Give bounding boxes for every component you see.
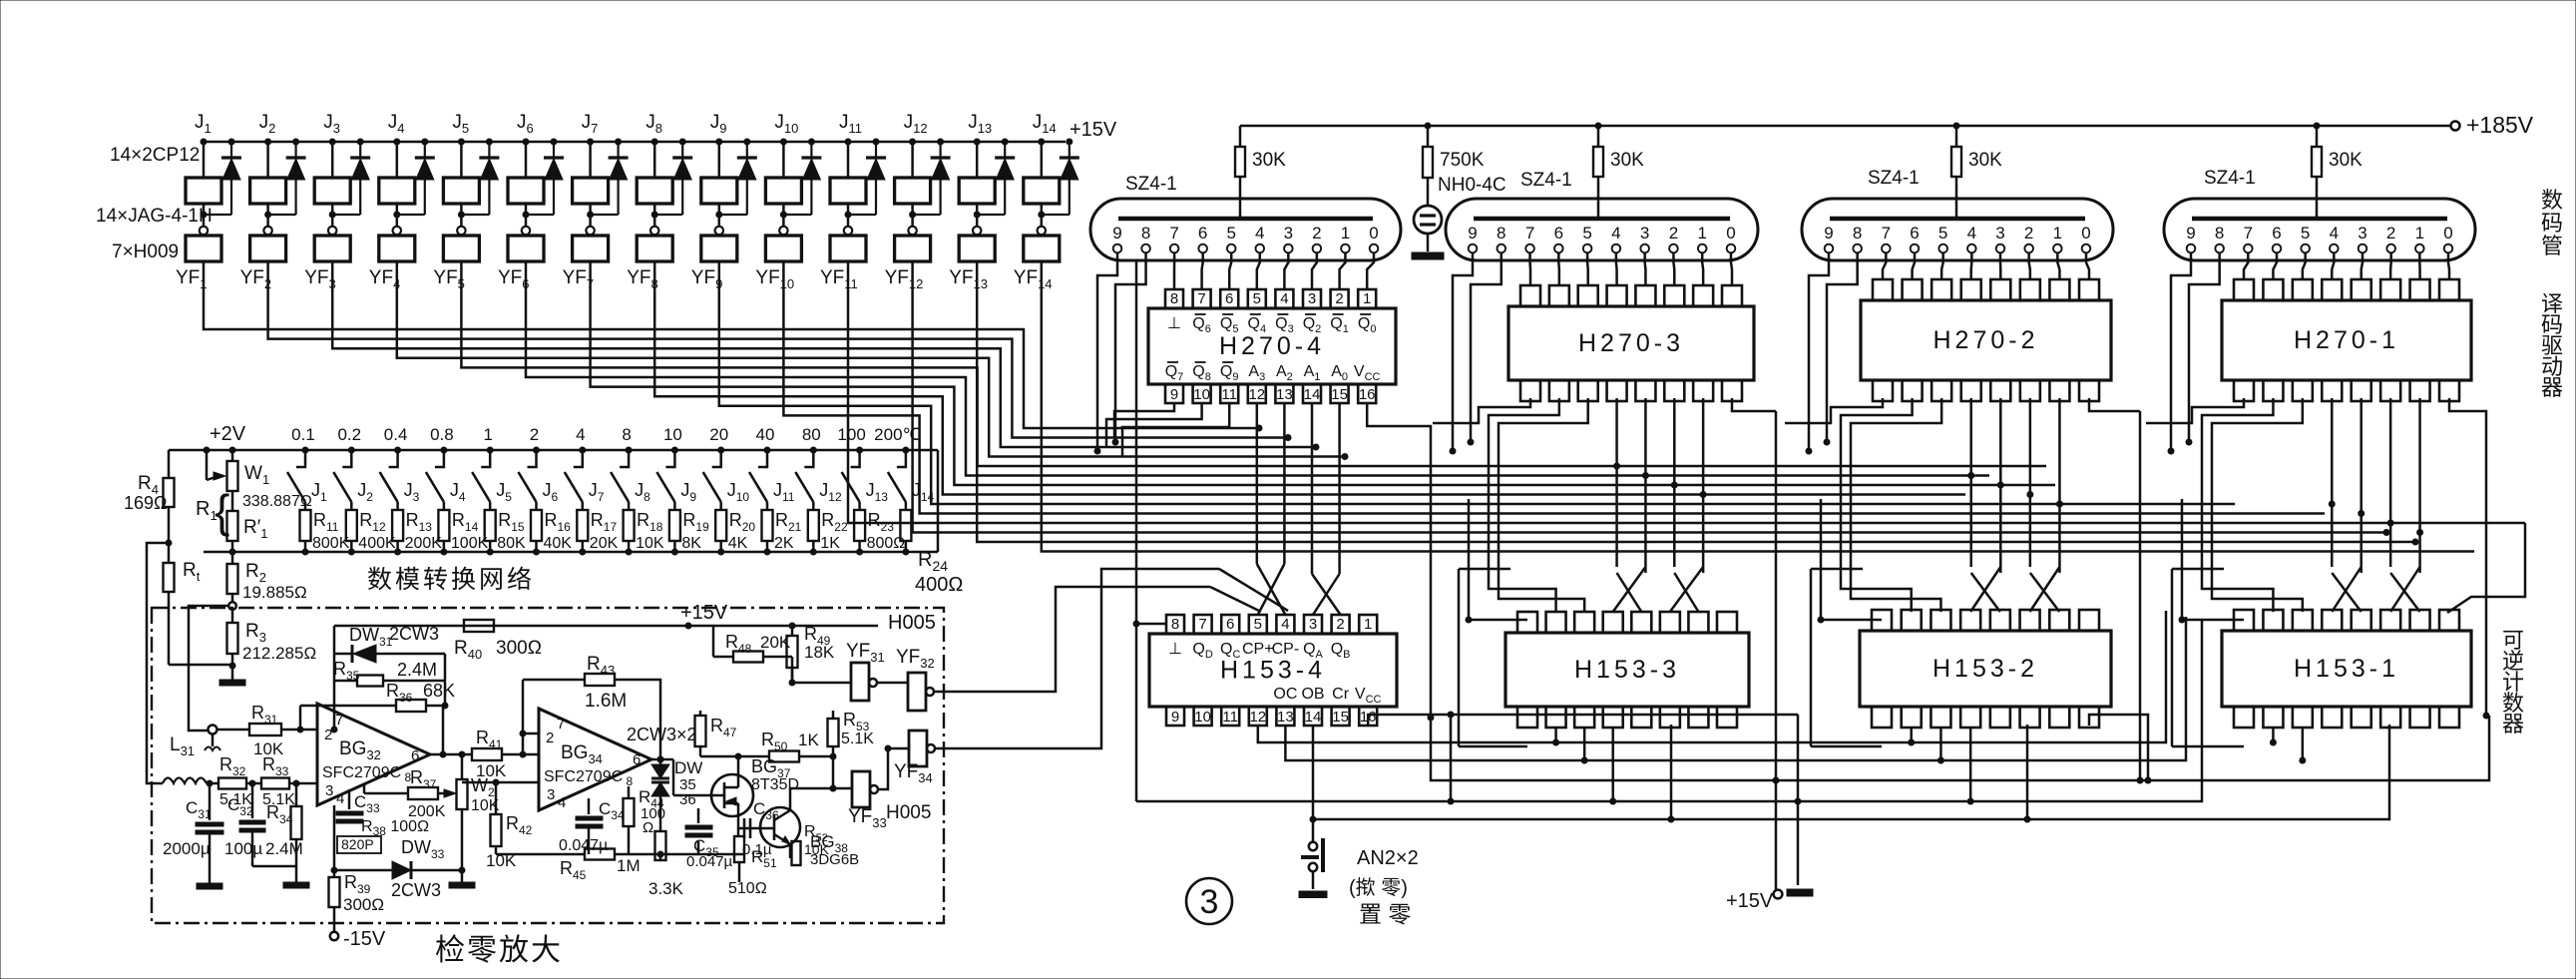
gate YF5 input bubble — [457, 227, 465, 235]
H153-2 pin (bottom 6) — [2020, 707, 2040, 728]
diode D8 2CP12 — [679, 139, 685, 145]
relay coil J14 — [1039, 139, 1045, 145]
svg-text:6: 6 — [2272, 224, 2281, 243]
terminal input probe — [209, 726, 217, 734]
H153-3 pin (bottom 5) — [1631, 707, 1651, 728]
gate YF9 H009 — [701, 236, 737, 261]
H270-1 pin (bottom 2) — [2263, 380, 2283, 401]
H153-4 pin 12 (bottom) — [1249, 707, 1267, 726]
H270-4 pin 9 (bottom) — [1165, 384, 1183, 403]
resistor R46 3.3K — [655, 831, 666, 860]
svg-text:8: 8 — [1170, 290, 1178, 307]
H153-3 pin (bottom 8) — [1717, 707, 1737, 728]
svg-text:6: 6 — [1226, 616, 1234, 633]
svg-text:4: 4 — [1255, 224, 1264, 243]
switch J12 (network) — [804, 450, 813, 467]
svg-text:3: 3 — [1995, 224, 2004, 243]
H270-2 pin (bottom 8) — [2079, 380, 2099, 401]
H270-1 pin (bottom 5) — [2352, 380, 2371, 401]
ground (bottom right) — [1787, 889, 1813, 896]
svg-text:1: 1 — [2053, 224, 2062, 243]
svg-text:Cr: Cr — [1332, 686, 1350, 703]
gate YF10 input bubble — [779, 227, 787, 235]
output node op2 — [651, 758, 673, 761]
gate YF12 input bubble — [908, 227, 916, 235]
H270-2 pin (bottom 7) — [2049, 380, 2069, 401]
switch J5 (network) — [481, 450, 490, 467]
svg-text:1K: 1K — [798, 731, 819, 749]
gate YF1 H009 — [186, 236, 221, 261]
relay coil J4 — [394, 139, 400, 145]
H270-4 pin 10 (bottom) — [1193, 384, 1211, 403]
zener DW33 2CW3 — [334, 869, 392, 872]
H153-1 pin (top 4) — [2322, 610, 2342, 631]
relay coil J1 — [201, 139, 207, 145]
H153-1 pin (bottom 8) — [2439, 707, 2459, 728]
ground below neon lamp — [1412, 252, 1444, 259]
wire tube2 pins 9,8 wrap — [1453, 252, 1473, 451]
node J9 coil-contact junction — [716, 212, 722, 218]
H153-4 pin 16 (bottom) — [1359, 707, 1377, 726]
svg-text:2: 2 — [2024, 224, 2033, 243]
svg-text:1: 1 — [1364, 616, 1372, 633]
diode D13 2CP12 — [1002, 139, 1008, 145]
H153-2 pin (top 4) — [1960, 610, 1980, 631]
svg-text:8: 8 — [1141, 224, 1150, 243]
capacitor C32 100µ — [251, 783, 254, 818]
resistor R16 40K — [531, 510, 542, 541]
svg-text:0.4: 0.4 — [384, 425, 408, 444]
H153-4 pin 9 (bottom) — [1166, 707, 1184, 726]
svg-text:H270-1: H270-1 — [2294, 326, 2399, 354]
svg-text:4: 4 — [558, 794, 566, 811]
wire feedback to amplifier (left) — [147, 543, 169, 783]
gate YF2 input bubble — [263, 227, 271, 235]
svg-text:2: 2 — [2386, 224, 2395, 243]
H153-4 pin 3 (top) — [1304, 615, 1322, 634]
wire R24 to bus corner — [937, 450, 940, 552]
H153-1 pin (bottom 6) — [2380, 707, 2400, 728]
svg-text:100: 100 — [837, 425, 865, 444]
svg-text:CP+: CP+ — [1242, 641, 1274, 658]
resistor R32 5.1K — [207, 782, 218, 785]
svg-text:2: 2 — [1335, 290, 1343, 307]
gate YF3 input bubble — [328, 227, 336, 235]
dash-dot boundary 检零放大 block — [152, 608, 944, 923]
svg-text:0.047µ: 0.047µ — [686, 853, 733, 870]
svg-text:0: 0 — [2081, 224, 2090, 243]
H153-2 pin (bottom 2) — [1902, 707, 1922, 728]
terminal -15V — [330, 932, 338, 940]
svg-text:5: 5 — [1253, 290, 1261, 307]
node J14 coil-contact junction — [1039, 212, 1045, 218]
gate YF8 input bubble — [650, 227, 658, 235]
svg-text:1.6M: 1.6M — [585, 691, 627, 712]
svg-text:7: 7 — [1169, 224, 1178, 243]
svg-text:9: 9 — [1171, 709, 1179, 726]
resistor R17 20K — [577, 510, 588, 541]
svg-text:68K: 68K — [423, 681, 455, 701]
svg-text:7: 7 — [557, 716, 565, 733]
H270-3 pin (top 7) — [1693, 285, 1713, 306]
H153-2 pin (top 5) — [1990, 610, 2010, 631]
zener DW31 2CW3 / resistor R35 2.4M loop — [333, 654, 336, 730]
svg-text:H153-3: H153-3 — [1574, 656, 1680, 684]
svg-text:80K: 80K — [497, 535, 526, 552]
svg-text:9: 9 — [1112, 224, 1121, 243]
svg-text:20: 20 — [709, 425, 728, 444]
node J1 coil-contact junction — [201, 212, 207, 218]
svg-text:⊥: ⊥ — [1167, 315, 1181, 332]
svg-text:CP-: CP- — [1272, 641, 1300, 658]
svg-text:10: 10 — [1194, 709, 1211, 726]
wire R50 row — [700, 755, 769, 758]
wire H270 column 3 nested left bends — [1785, 398, 1883, 423]
svg-text:11: 11 — [1222, 709, 1238, 726]
H153-3 pin (bottom 6) — [1660, 707, 1680, 728]
svg-text:H153-2: H153-2 — [1932, 655, 2038, 683]
wire tube1 pins 9,8 wrap — [1097, 252, 1117, 451]
svg-text:212.285Ω: 212.285Ω — [242, 644, 316, 663]
H153-3 pin (top 6) — [1660, 612, 1680, 633]
relay coil J7 — [588, 139, 594, 145]
wire tube3 cathodes to H270 pins — [1883, 252, 1886, 279]
svg-text:7: 7 — [2244, 224, 2253, 243]
resistor R52 10K — [792, 841, 801, 865]
wire +2V rail — [169, 449, 938, 452]
wire H153 column 3 left wrap — [1810, 569, 1813, 746]
resistor R23 800Ω — [854, 510, 865, 541]
svg-text:+185V: +185V — [2466, 112, 2534, 138]
diode D3 2CP12 — [357, 139, 363, 145]
svg-text:14×2CP12: 14×2CP12 — [110, 145, 200, 166]
svg-text:3: 3 — [2358, 224, 2366, 243]
H270-1 pin (bottom 3) — [2293, 380, 2313, 401]
svg-text:9: 9 — [1170, 386, 1178, 403]
switch J2 (network) — [342, 450, 351, 467]
IC H270-2 body — [1861, 300, 2111, 380]
relay coil J10 — [780, 139, 786, 145]
svg-text:2CW3×2: 2CW3×2 — [627, 725, 697, 744]
terminal +185V — [2451, 122, 2460, 131]
diode D5 2CP12 — [486, 139, 492, 145]
svg-text:4: 4 — [1281, 616, 1289, 633]
H153-4 pin 10 (bottom) — [1194, 707, 1212, 726]
wire VCC row H153 chips — [1368, 715, 1798, 726]
diode D12 2CP12 — [938, 139, 944, 145]
H270-4 pin 16 (bottom) — [1358, 384, 1376, 403]
node J10 coil-contact junction — [780, 212, 786, 218]
gate YF1 input bubble — [200, 227, 208, 235]
H270-3 pin (top 1) — [1520, 285, 1540, 306]
svg-text:1K: 1K — [820, 535, 840, 552]
svg-text:300Ω: 300Ω — [496, 638, 542, 659]
H153-4 pin 2 (top) — [1332, 615, 1350, 634]
resistor R34 2.4M — [295, 783, 298, 806]
svg-text:10: 10 — [1193, 386, 1210, 403]
svg-text:0.1: 0.1 — [291, 425, 315, 444]
svg-text:OC: OC — [1273, 686, 1297, 703]
H270-2 pin (top 3) — [1932, 279, 1951, 300]
H270-3 pin (top 3) — [1578, 285, 1598, 306]
IC H270-3 body — [1508, 306, 1754, 380]
svg-text:置 零: 置 零 — [1359, 901, 1411, 927]
resistor R4 169Ω — [168, 450, 171, 478]
H153-3 pin (top 5) — [1631, 612, 1651, 633]
resistor R50 1K — [769, 751, 799, 762]
svg-text:0: 0 — [1369, 224, 1378, 243]
resistor R53 5.1K — [832, 711, 835, 719]
diode D14 2CP12 — [1067, 139, 1073, 145]
op-amp BG34 SFC2709C — [539, 709, 651, 810]
wire YF3 output to bus row 3 — [332, 261, 1316, 447]
gate YF3 H009 — [314, 236, 350, 261]
svg-text:AN2×2: AN2×2 — [1357, 847, 1419, 869]
resistor R39 300Ω — [333, 870, 336, 877]
resistor R24 400Ω — [900, 510, 911, 541]
IC H153-4 body — [1149, 634, 1397, 707]
node R4/Rt junction — [166, 540, 172, 546]
wire YF11 output to bus row 11 — [848, 261, 2525, 523]
relay coil J8 — [651, 139, 657, 145]
resistor 30K (anode, tube 1) — [1239, 126, 1242, 147]
svg-text:338.887Ω: 338.887Ω — [242, 493, 312, 510]
gate YF14 H009 — [1024, 236, 1060, 261]
gate YF7 H009 — [573, 236, 609, 261]
svg-text:DW: DW — [674, 758, 702, 777]
wire H270 column 4 verticals to bus and crossovers — [2331, 398, 2334, 504]
resistor R48 20K — [733, 652, 763, 663]
H270-4 pin 15 (bottom) — [1331, 384, 1349, 403]
H270-4 pin 14 (bottom) — [1303, 384, 1321, 403]
gate YF12 H009 — [895, 236, 931, 261]
H270-2 pin (top 4) — [1961, 279, 1981, 300]
gate YF13 H009 — [959, 236, 995, 261]
H270-4 pin 4 (top) — [1275, 289, 1293, 308]
svg-text:4: 4 — [1611, 224, 1620, 243]
H270-3 pin (top 6) — [1664, 285, 1684, 306]
H153-3 pin (bottom 4) — [1603, 707, 1623, 728]
H270-3 pin (bottom 1) — [1520, 380, 1540, 401]
H153-3 pin (top 3) — [1574, 612, 1594, 633]
H153-2 pin (top 7) — [2049, 610, 2069, 631]
svg-text:510Ω: 510Ω — [728, 880, 767, 897]
resistor Rt — [168, 543, 171, 563]
svg-text:14: 14 — [1305, 709, 1322, 726]
svg-text:6: 6 — [1554, 224, 1563, 243]
node J4 coil-contact junction — [394, 212, 400, 218]
resistor 750K — [1425, 123, 1431, 129]
svg-text:2: 2 — [530, 425, 539, 444]
H270-3 pin (top 8) — [1722, 285, 1742, 306]
relay coil J3 — [329, 139, 335, 145]
svg-text:14×JAG-4-1H: 14×JAG-4-1H — [96, 206, 213, 227]
svg-text:18K: 18K — [804, 643, 835, 662]
wire H270 column 2 right pin down — [1732, 398, 1776, 411]
svg-text:+15V: +15V — [1070, 119, 1117, 141]
svg-text:4: 4 — [1967, 224, 1976, 243]
wire H270 column 4 nested left bends — [2146, 398, 2244, 423]
svg-text:1: 1 — [483, 425, 492, 444]
ground below R3 — [219, 680, 245, 686]
H153-1 pin (bottom 1) — [2234, 707, 2254, 728]
wire YF5 output to bus row 5 — [461, 261, 2046, 466]
switch J1 (network) — [296, 450, 305, 467]
figure number 3 — [1186, 878, 1232, 924]
H270-4 pin 3 (top) — [1303, 289, 1321, 308]
svg-text:6: 6 — [1198, 224, 1207, 243]
switch J9 (network) — [665, 450, 674, 467]
diode D10 2CP12 — [808, 139, 814, 145]
wire YF33 output to YF34 input — [878, 748, 888, 789]
svg-text:1: 1 — [2415, 224, 2424, 243]
wire YF12 output to bus row 12 — [913, 261, 2386, 533]
capacitor C33 820P — [348, 789, 351, 809]
resistor R22 1K — [808, 510, 819, 541]
resistor R41 10K — [472, 748, 502, 760]
resistor R14 100K — [438, 510, 449, 541]
IC H153-3 body — [1505, 633, 1749, 707]
H153-2 pin (top 2) — [1902, 610, 1922, 631]
wire op2 non-inverting input — [462, 781, 539, 784]
wire H153 column 4 left input — [2182, 619, 2244, 622]
svg-text:4: 4 — [2330, 224, 2339, 243]
svg-text:1: 1 — [1341, 224, 1350, 243]
resistor R11 800K — [300, 510, 311, 541]
capacitor C36 0.1µ — [737, 816, 740, 828]
resistor R21 2K — [762, 510, 773, 541]
svg-text:5.1K: 5.1K — [841, 731, 874, 747]
H270-3 pin (top 2) — [1549, 285, 1569, 306]
wire H153-2 VCC row — [2089, 715, 2148, 780]
wire H153 column 3 left input — [1821, 619, 1882, 622]
gate YF13 input bubble — [973, 227, 981, 235]
relay coil J11 — [845, 139, 851, 145]
H270-2 pin (bottom 3) — [1932, 380, 1951, 401]
H153-4 pin 15 (bottom) — [1332, 707, 1350, 726]
H153-1 pin (top 7) — [2410, 610, 2430, 631]
H270-2 pin (top 5) — [1990, 279, 2010, 300]
H270-3 pin (bottom 2) — [1549, 380, 1569, 401]
push button AN2x2 — [1309, 842, 1317, 850]
svg-text:13: 13 — [1277, 709, 1294, 726]
svg-text:400K: 400K — [358, 535, 396, 552]
H270-1 pin (top 4) — [2322, 279, 2342, 300]
H270-2 pin (top 6) — [2020, 279, 2040, 300]
svg-text:2CW3: 2CW3 — [391, 880, 441, 900]
resistor 30K (anode, tube 3) — [1953, 123, 1959, 129]
H270-1 pin (bottom 1) — [2234, 380, 2254, 401]
IC H270-1 body — [2222, 300, 2471, 380]
H153-4 pin 4 (top) — [1276, 615, 1294, 634]
H270-4 pin 1 (top) — [1358, 289, 1376, 308]
wire op1 output — [430, 753, 472, 756]
resistor R47 — [699, 711, 702, 716]
wire tube1 cathodes to H270 pins — [1173, 252, 1176, 289]
H270-2 pin (bottom 4) — [1961, 380, 1981, 401]
svg-text:0.047µ: 0.047µ — [559, 837, 608, 854]
H270-3 pin (bottom 8) — [1722, 380, 1742, 401]
svg-text:-15V: -15V — [343, 928, 386, 950]
H153-2 pin (bottom 8) — [2079, 707, 2099, 728]
svg-text:20K: 20K — [590, 535, 619, 552]
svg-text:200K: 200K — [405, 535, 443, 552]
H270-4 pin 6 (top) — [1220, 289, 1238, 308]
node J8 coil-contact junction — [651, 212, 657, 218]
svg-text:100K: 100K — [451, 535, 489, 552]
svg-text:2: 2 — [1669, 224, 1678, 243]
node J7 coil-contact junction — [588, 212, 594, 218]
H153-1 pin (top 6) — [2380, 610, 2400, 631]
svg-text:8T35D: 8T35D — [751, 776, 799, 793]
svg-text:12: 12 — [1249, 709, 1266, 726]
wire H270 column 2 verticals to bus and crossovers — [1615, 398, 1618, 466]
svg-text:1: 1 — [1363, 290, 1371, 307]
svg-text:400Ω: 400Ω — [915, 574, 963, 596]
svg-text:8K: 8K — [681, 535, 701, 552]
svg-text:9: 9 — [1468, 224, 1477, 243]
H270-4 pin 5 (top) — [1248, 289, 1266, 308]
H153-1 pin (bottom 4) — [2322, 707, 2342, 728]
svg-text:7: 7 — [335, 712, 343, 729]
svg-text:30K: 30K — [1968, 150, 2002, 171]
H153-3 pin (top 2) — [1546, 612, 1566, 633]
resistor R18 10K — [624, 510, 635, 541]
relay coil J6 — [523, 139, 529, 145]
svg-text:3.3K: 3.3K — [648, 879, 684, 898]
wire H270-4 VCC to +15V — [1367, 403, 1431, 718]
svg-text:H270-3: H270-3 — [1578, 329, 1684, 357]
node J11 coil-contact junction — [845, 212, 851, 218]
H153-1 pin (bottom 7) — [2410, 707, 2430, 728]
H270-4 pin 2 (top) — [1331, 289, 1349, 308]
H270-2 pin (top 2) — [1903, 279, 1923, 300]
svg-text:0: 0 — [1726, 224, 1735, 243]
H270-3 pin (bottom 3) — [1578, 380, 1598, 401]
svg-text:8: 8 — [1171, 616, 1179, 633]
H153-1 pin (top 8) — [2439, 610, 2459, 631]
resistor R45 1M — [496, 853, 585, 856]
svg-text:8: 8 — [1497, 224, 1505, 243]
wire tube2 cathodes to H270 pins — [1528, 252, 1531, 285]
svg-text:OB: OB — [1301, 686, 1324, 703]
svg-text:2.4M: 2.4M — [397, 660, 437, 680]
resistor R2 19.885Ω — [231, 552, 234, 564]
svg-text:2K: 2K — [774, 535, 794, 552]
gate YF7 input bubble — [586, 227, 594, 235]
diode D2 2CP12 — [293, 139, 299, 145]
H153-3 pin (bottom 3) — [1574, 707, 1594, 728]
svg-text:820P: 820P — [341, 836, 374, 852]
svg-text:30K: 30K — [1252, 150, 1286, 171]
H153-2 pin (bottom 7) — [2049, 707, 2069, 728]
H270-2 pin (bottom 5) — [1990, 380, 2010, 401]
svg-text:7: 7 — [1197, 290, 1205, 307]
relay coil J9 — [716, 139, 722, 145]
svg-text:Ω: Ω — [643, 819, 653, 836]
H153-4 pin 7 (top) — [1194, 615, 1212, 634]
H153-2 pin (top 6) — [2020, 610, 2040, 631]
svg-text:13: 13 — [1276, 386, 1293, 403]
H270-2 pin (bottom 1) — [1873, 380, 1893, 401]
resistor R44 100Ω — [628, 786, 631, 798]
H270-3 pin (bottom 7) — [1693, 380, 1713, 401]
svg-text:检零放大: 检零放大 — [435, 934, 563, 967]
IC H153-1 body — [2222, 631, 2471, 707]
svg-text:3: 3 — [1284, 224, 1293, 243]
relay coil J5 — [458, 139, 464, 145]
wire YF14 output to bus row 14 — [1042, 261, 2474, 552]
